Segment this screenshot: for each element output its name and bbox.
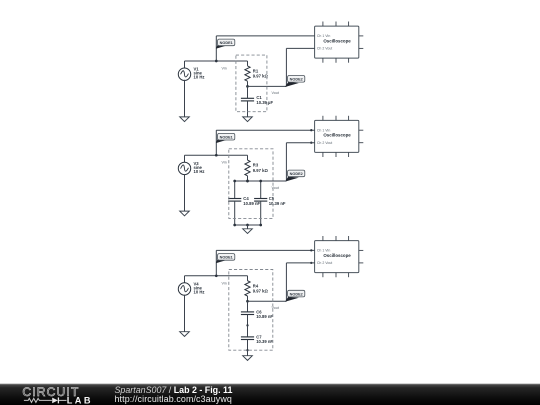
oscilloscope block (circuit 1) [315,22,364,63]
svg-text:10 Hz: 10 Hz [194,75,205,80]
capacitor C6 [247,301,249,312]
node junction between capacitors [246,324,248,326]
node flag NODE2 [285,76,305,88]
wire source bottom lead [184,80,186,117]
svg-text:10 Hz: 10 Hz [194,290,205,295]
svg-text:Oscilloscope: Oscilloscope [323,38,351,43]
node NODE1 junction [215,60,218,63]
wire parallel bottom bus [235,224,261,226]
node junctions on buses [233,180,236,183]
oscilloscope block (circuit 2) [315,116,364,157]
svg-text:http://circuitlab.com/c3auywq: http://circuitlab.com/c3auywq [115,394,232,404]
svg-text:NODE2: NODE2 [290,292,303,296]
scope pin dots [310,129,312,131]
wire node1 riser to scope Ch1 [216,35,314,37]
capacitor C7 [247,325,249,337]
dashed box RC filter [236,55,267,112]
svg-text:NODE2: NODE2 [290,78,303,82]
scope pin dots [310,249,312,251]
svg-text:Vout: Vout [272,91,279,95]
ground under capacitors [243,229,253,234]
svg-text:Ch 2 Vout: Ch 2 Vout [317,141,332,145]
wire Vout to scope Ch2 [248,300,287,302]
ground under V1 [180,117,190,122]
resistor R1 [247,61,249,66]
node junction at box edge [246,349,248,351]
svg-text:10 Hz: 10 Hz [194,169,205,174]
svg-text:9.97 kΩ: 9.97 kΩ [253,168,269,173]
node flag NODE1 [216,39,235,49]
wire Vin rail [185,60,248,62]
svg-text:LAB: LAB [67,395,93,405]
svg-text:10.39 µF: 10.39 µF [256,100,273,105]
wire parallel top bus [235,180,287,182]
wire Vin rail [185,154,248,156]
wire Vin rail [185,275,248,277]
CircuitLab logo resistor-diode glyph [24,398,52,402]
svg-text:Ch 2 Vout: Ch 2 Vout [317,47,332,51]
ground under V3 [180,211,190,216]
svg-text:9.97 kΩ: 9.97 kΩ [253,288,269,293]
dashed box RC filter [229,270,273,351]
voltage source V3 [178,162,190,174]
svg-text:9.97 kΩ: 9.97 kΩ [253,74,269,79]
ground under capacitors [243,356,253,361]
svg-text:NODE2: NODE2 [290,172,303,176]
svg-text:10.39 nF: 10.39 nF [269,201,286,206]
svg-text:10.39 nF: 10.39 nF [256,339,273,344]
svg-text:NODE1: NODE1 [220,41,233,45]
wire Vout to scope Ch2 [248,85,287,87]
svg-text:Oscilloscope: Oscilloscope [323,253,351,258]
voltage source V4 [178,283,190,295]
svg-text:10.89 nF: 10.89 nF [256,314,273,319]
ground under capacitor [243,117,253,122]
svg-text:NODE1: NODE1 [220,256,233,260]
node flag NODE2 [285,290,305,302]
resistor R4 [247,276,249,281]
node junction below resistor [246,300,249,303]
node flag NODE2 [285,170,305,182]
node junction below resistor [246,85,249,88]
wire ground stem [247,225,249,229]
wire node1 riser to scope Ch1 [216,249,314,251]
oscilloscope block (circuit 3) [315,236,364,277]
capacitor C1 [247,86,249,98]
node junction below resistor [246,180,249,183]
resistor R3 [247,155,249,160]
wire source bottom lead [184,295,186,332]
node NODE1 junction [215,274,218,277]
wire source top lead [184,276,186,284]
node flag NODE1 [216,254,235,264]
node NODE1 junction [215,154,218,157]
svg-text:Vin: Vin [222,161,227,165]
dashed box RC filter [229,149,273,219]
voltage source V1 [178,68,190,80]
wire source top lead [184,155,186,163]
svg-text:Vin: Vin [222,67,227,71]
svg-text:Ch 2 Vout: Ch 2 Vout [317,261,332,265]
capacitor C4 [234,181,236,199]
svg-text:Vin: Vin [222,281,227,285]
wire Vout to scope Ch2 [248,180,287,182]
wire source bottom lead [184,174,186,211]
ground under V4 [180,332,190,337]
wire ground stem [247,350,249,356]
svg-text:NODE1: NODE1 [220,136,233,140]
svg-text:Oscilloscope: Oscilloscope [323,133,351,138]
wire source top lead [184,61,186,69]
capacitor C5 [260,181,262,199]
wire node1 riser to scope Ch1 [216,129,314,131]
node flag NODE1 [216,133,235,143]
